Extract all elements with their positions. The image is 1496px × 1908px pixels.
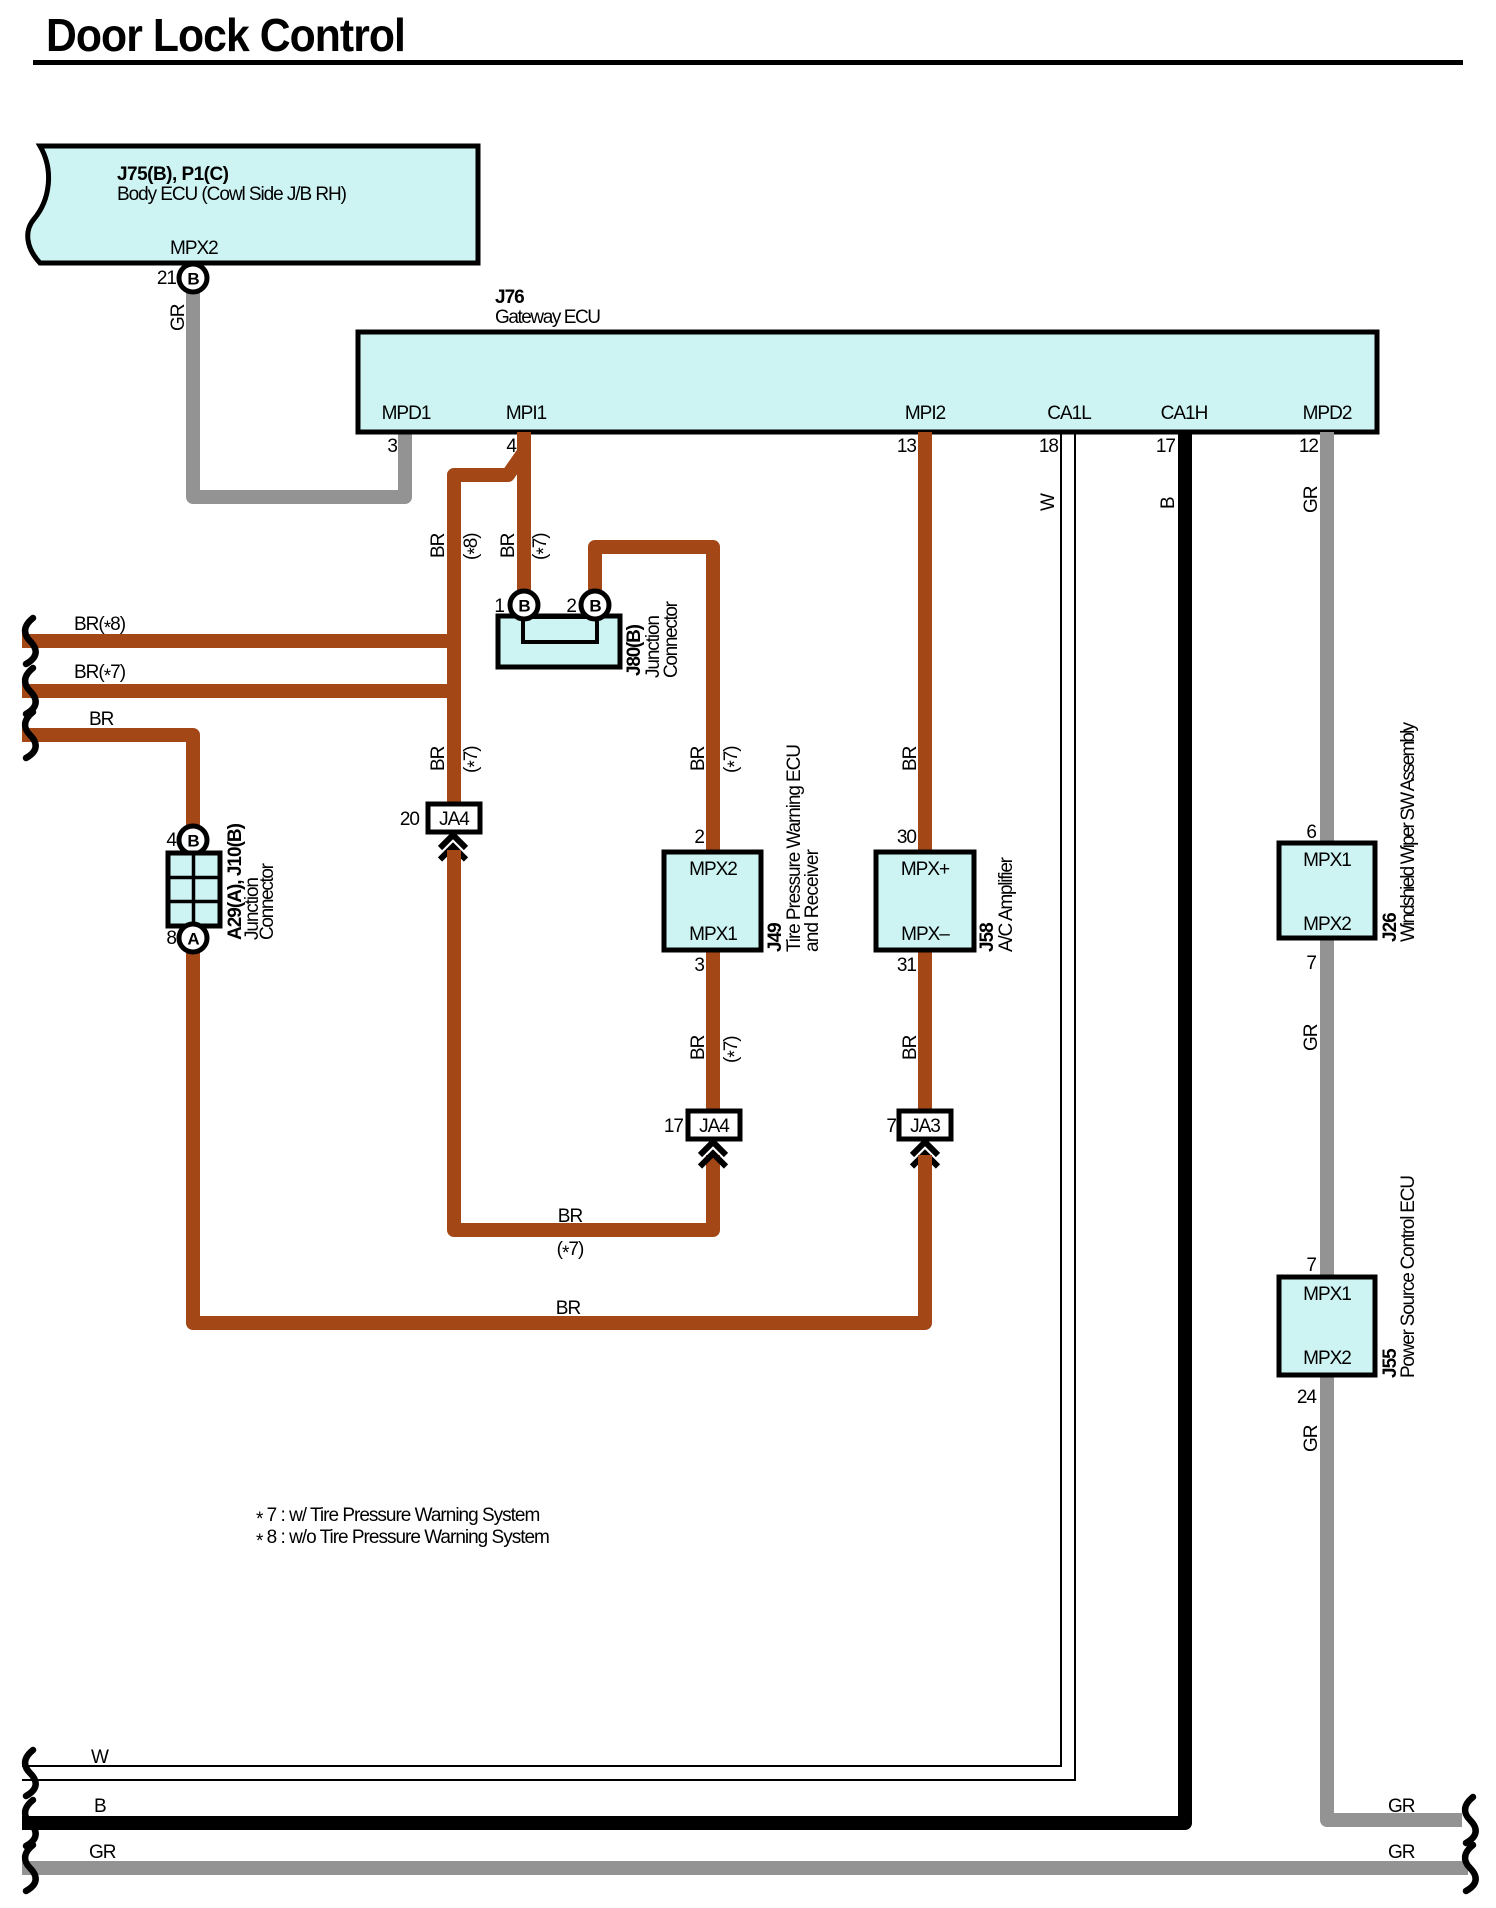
connector circle B (J75 pin 21) bbox=[179, 264, 207, 292]
svg-text:GR: GR bbox=[1301, 1425, 1322, 1452]
ECU block J75(B),P1(C) Body ECU bbox=[28, 146, 478, 263]
svg-text:J80(B): J80(B) bbox=[624, 624, 645, 676]
connector circle B (J80 pin 1) bbox=[510, 591, 538, 619]
svg-text:BR: BR bbox=[556, 1298, 581, 1319]
svg-text:30: 30 bbox=[897, 827, 917, 848]
ECU block J49 Tire Pressure Warning ECU and Receiver bbox=[664, 852, 761, 950]
ECU block J76 Gateway ECU bbox=[358, 332, 1377, 432]
break squiggle bbox=[1465, 1845, 1476, 1891]
svg-text:MPX1: MPX1 bbox=[1303, 850, 1351, 871]
svg-text:J58: J58 bbox=[977, 923, 998, 952]
ECU block J58 A/C Amplifier bbox=[876, 852, 974, 950]
svg-text:MPX–: MPX– bbox=[901, 924, 950, 945]
break squiggle bbox=[25, 1750, 36, 1796]
wire BR stub from page edge to A29 bbox=[22, 735, 193, 826]
svg-text:4: 4 bbox=[166, 830, 177, 851]
svg-text:8: 8 bbox=[166, 928, 176, 949]
svg-text:Power Source Control ECU: Power Source Control ECU bbox=[1398, 1176, 1419, 1378]
connector circle B (A29 pin 4) bbox=[179, 826, 207, 854]
svg-text:B: B bbox=[187, 270, 199, 289]
svg-text:BR: BR bbox=[688, 1035, 709, 1060]
svg-text:21: 21 bbox=[157, 268, 177, 289]
svg-text:Connector: Connector bbox=[661, 600, 682, 678]
wire B (CA1H) down and to left edge bbox=[22, 432, 1185, 1823]
svg-text:6: 6 bbox=[1306, 822, 1316, 843]
svg-text:12: 12 bbox=[1299, 436, 1319, 457]
svg-text:1: 1 bbox=[494, 596, 504, 617]
svg-text:J76: J76 bbox=[495, 287, 524, 308]
svg-text:MPX2: MPX2 bbox=[689, 859, 737, 880]
svg-text:JA4: JA4 bbox=[699, 1116, 730, 1137]
svg-text:JA4: JA4 bbox=[439, 809, 470, 830]
svg-text:and Receiver: and Receiver bbox=[802, 848, 823, 952]
junction connector grid bbox=[168, 853, 220, 926]
svg-text:BR: BR bbox=[900, 1035, 921, 1060]
break squiggle bbox=[25, 668, 36, 714]
wire GR bottom full width bbox=[22, 1861, 1468, 1875]
title underline bbox=[33, 60, 1463, 65]
wire BR from J76 pin 4 to J80 pin 1 bbox=[517, 432, 531, 591]
break squiggle bbox=[25, 712, 36, 758]
ECU block J55 Power Source Control ECU bbox=[1279, 1277, 1375, 1375]
wire BR J49 pin 3 to JA4-17 bbox=[706, 948, 720, 1111]
svg-text:24: 24 bbox=[1297, 1387, 1318, 1408]
svg-text:17: 17 bbox=[1156, 436, 1176, 457]
wire GR from J76 pin 12 to J26 MPX1 bbox=[1320, 432, 1334, 843]
svg-text:BR: BR bbox=[498, 533, 519, 558]
svg-text:B: B bbox=[589, 597, 601, 616]
wire BR from below JA4-20 arrows to JA4-17 (via bottom run) bbox=[454, 850, 713, 1230]
wire BR from J80 pin 2 to J49 MPX2 pin 2 bbox=[595, 547, 713, 852]
connector box JA4 bbox=[428, 804, 480, 832]
svg-text:MPD1: MPD1 bbox=[382, 403, 431, 424]
wire BR branch (*8)/(*7) from pin 4 down to JA4 20 bbox=[454, 452, 524, 806]
svg-text:MPX+: MPX+ bbox=[901, 859, 950, 880]
svg-text:MPX1: MPX1 bbox=[689, 924, 737, 945]
svg-text:W: W bbox=[1038, 493, 1059, 511]
wire GR from J55 MPX2 to right edge bbox=[1327, 1375, 1462, 1820]
arrow chevrons JA4-20 bbox=[440, 835, 466, 848]
svg-text:BR: BR bbox=[688, 746, 709, 771]
svg-text:Gateway ECU: Gateway ECU bbox=[495, 307, 600, 328]
svg-text:GR: GR bbox=[1388, 1796, 1415, 1817]
svg-text:7: 7 bbox=[1306, 1255, 1316, 1276]
svg-text:JA3: JA3 bbox=[910, 1116, 940, 1137]
svg-text:Connector: Connector bbox=[257, 862, 278, 940]
svg-text:Door Lock Control: Door Lock Control bbox=[46, 9, 405, 61]
svg-text:17: 17 bbox=[664, 1116, 684, 1137]
svg-text:13: 13 bbox=[897, 436, 917, 457]
wire BR from J76 pin 13 to J58 MPX+ bbox=[918, 432, 932, 852]
svg-text:CA1H: CA1H bbox=[1161, 403, 1208, 424]
break squiggle bbox=[25, 1845, 36, 1891]
svg-text:7: 7 bbox=[886, 1116, 896, 1137]
svg-text:BR: BR bbox=[558, 1206, 583, 1227]
svg-text:GR: GR bbox=[1301, 1024, 1322, 1051]
break squiggle bbox=[25, 1800, 36, 1846]
break squiggle bbox=[25, 618, 36, 664]
wire BR J58 pin 31 to JA3 bbox=[918, 948, 932, 1111]
connector circle B (J80 pin 2) bbox=[581, 591, 609, 619]
svg-text:GR: GR bbox=[1301, 486, 1322, 513]
svg-text:Body ECU (Cowl Side J/B RH): Body ECU (Cowl Side J/B RH) bbox=[117, 184, 347, 205]
svg-text:BR: BR bbox=[900, 746, 921, 771]
svg-text:18: 18 bbox=[1039, 436, 1059, 457]
svg-text:B: B bbox=[94, 1796, 106, 1817]
svg-text:B: B bbox=[518, 597, 530, 616]
svg-text:3: 3 bbox=[387, 436, 397, 457]
svg-text:GR: GR bbox=[89, 1842, 116, 1863]
svg-text:MPI1: MPI1 bbox=[506, 403, 547, 424]
svg-text:3: 3 bbox=[694, 955, 704, 976]
svg-text:MPX2: MPX2 bbox=[170, 238, 218, 259]
connector box JA3 bbox=[899, 1111, 951, 1139]
svg-text:MPX2: MPX2 bbox=[1303, 1348, 1351, 1369]
svg-text:GR: GR bbox=[1388, 1842, 1415, 1863]
wire BR from A29 pin 8 to JA3 (bottom run) bbox=[193, 951, 925, 1323]
junction connector J80(B) bbox=[498, 616, 620, 667]
svg-text:J49: J49 bbox=[765, 923, 786, 952]
svg-text:BR: BR bbox=[428, 533, 449, 558]
svg-text:MPX1: MPX1 bbox=[1303, 1284, 1351, 1305]
svg-text:GR: GR bbox=[168, 304, 189, 331]
svg-text:A/C Amplifier: A/C Amplifier bbox=[996, 856, 1017, 952]
J80(B) inner slot bbox=[523, 617, 597, 642]
arrow chevrons JA4-17 bbox=[700, 1142, 726, 1155]
svg-text:MPD2: MPD2 bbox=[1303, 403, 1352, 424]
arrow chevrons JA3-7 bbox=[912, 1142, 938, 1155]
svg-text:J75(B), P1(C): J75(B), P1(C) bbox=[117, 164, 229, 185]
svg-text:2: 2 bbox=[566, 596, 576, 617]
wire GR from J75 pin 21 to J76 pin 3 bbox=[193, 288, 405, 497]
wire BR(*8) stub from page edge bbox=[22, 634, 454, 648]
svg-text:20: 20 bbox=[400, 809, 420, 830]
svg-text:A: A bbox=[187, 930, 199, 949]
svg-text:BR: BR bbox=[428, 746, 449, 771]
wire BR(*7) stub from page edge bbox=[22, 684, 454, 698]
svg-text:2: 2 bbox=[694, 827, 704, 848]
ECU block J26 Windshield Wiper SW Assembly bbox=[1279, 843, 1375, 938]
svg-text:W: W bbox=[91, 1747, 109, 1768]
connector box JA4 (17) bbox=[688, 1111, 740, 1139]
svg-text:Windshield Wiper SW Assembly: Windshield Wiper SW Assembly bbox=[1398, 722, 1419, 943]
svg-text:31: 31 bbox=[897, 955, 917, 976]
svg-text:MPX2: MPX2 bbox=[1303, 914, 1351, 935]
svg-text:CA1L: CA1L bbox=[1047, 403, 1091, 424]
wire GR from J26 MPX2 to J55 MPX1 bbox=[1320, 938, 1334, 1277]
svg-text:7: 7 bbox=[1306, 953, 1316, 974]
svg-text:B: B bbox=[187, 832, 199, 851]
break squiggle bbox=[1465, 1797, 1476, 1843]
svg-text:BR: BR bbox=[89, 709, 114, 730]
wire W (CA1L) double line down and to left edge bbox=[22, 432, 1061, 1766]
svg-text:B: B bbox=[1158, 497, 1179, 509]
svg-text:MPI2: MPI2 bbox=[905, 403, 946, 424]
connector circle A (A29 pin 8) bbox=[179, 924, 207, 952]
